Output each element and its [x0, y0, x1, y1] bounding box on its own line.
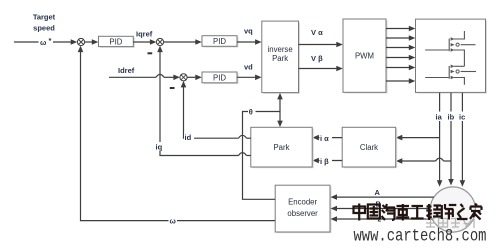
svg-text:*: * — [49, 36, 52, 45]
svg-text:Clark: Clark — [360, 143, 378, 152]
wire i-alpha (Clark to Park) — [318, 137, 342, 139]
watermark hanzi (red brand text) — [354, 204, 482, 221]
block U3 inverter bridge — [416, 19, 488, 94]
block PID3 (d-axis PID) — [202, 72, 239, 84]
block U2 PWM — [343, 19, 388, 94]
zhong — [354, 204, 366, 221]
svg-text:PWM: PWM — [355, 52, 374, 61]
svg-text:Park: Park — [273, 143, 289, 152]
wire encoder A line — [337, 196, 435, 198]
svg-text:id: id — [185, 133, 192, 142]
svg-text:PID: PID — [213, 37, 226, 46]
svg-text:Park: Park — [272, 54, 288, 63]
svg-text:i α: i α — [320, 134, 329, 143]
wire Iqref (PID1 to S2) — [133, 41, 150, 43]
svg-text:ω: ω — [40, 38, 47, 47]
svg-text:PID: PID — [213, 73, 226, 82]
wire id feedback (Park to S3) — [184, 87, 251, 139]
wire vq (PID2 to inverse Park) — [237, 41, 256, 43]
wire iq feedback (Park to S2) — [160, 51, 251, 155]
che — [396, 204, 409, 221]
transistor Q1 (top mosfet) — [425, 31, 475, 66]
wires PWM gate signals x6 — [386, 29, 410, 82]
block PID2 (q-axis PID) — [202, 36, 239, 48]
label omega-hat — [169, 216, 178, 226]
label i beta — [320, 157, 333, 166]
svg-text:Idref: Idref — [118, 66, 135, 75]
block PID1 (speed PID) — [99, 36, 135, 48]
label Target speed — [33, 13, 56, 33]
wire S3 to PID3 — [187, 76, 196, 78]
junction S1 (speed error) — [77, 38, 84, 45]
svg-text:Target: Target — [33, 13, 56, 22]
label minus S2 — [148, 52, 153, 54]
arrowhead into junction S1 — [71, 39, 78, 45]
label omega-star — [40, 36, 52, 47]
svg-text:inverse: inverse — [268, 45, 293, 54]
label minus S3 — [170, 87, 175, 89]
wire vd (PID3 to inverse Park) — [237, 76, 256, 78]
wire ia phase line — [439, 93, 441, 181]
wire encoder Z line — [337, 218, 433, 220]
svg-text:V β: V β — [311, 54, 323, 63]
wire ic phase line — [461, 93, 463, 181]
wire S1 to PID1 — [85, 41, 93, 43]
wire i-beta (Clark to Park) — [318, 160, 342, 162]
svg-text:θ: θ — [249, 108, 253, 117]
guo — [368, 205, 380, 219]
svg-text:vd: vd — [244, 63, 253, 72]
wire Idref (to S3) — [109, 74, 174, 77]
block U4 Clark — [342, 127, 397, 168]
svg-text:speed: speed — [33, 24, 55, 33]
svg-text:vq: vq — [244, 27, 253, 36]
svg-text:Encoder: Encoder — [288, 198, 317, 207]
wire encoder B line — [337, 208, 431, 210]
wire ib tap to Clark (hop over ia) — [402, 158, 452, 161]
svg-text:www.cartech8.com: www.cartech8.com — [354, 226, 487, 246]
svg-text:observer: observer — [287, 209, 318, 218]
block U1 inverse Park — [262, 21, 300, 94]
wire ib phase line — [450, 93, 452, 180]
wire ia tap to Clark — [402, 137, 440, 139]
cheng — [426, 204, 441, 220]
junction S2 (q current error) — [156, 38, 163, 45]
label i alpha — [320, 134, 333, 143]
svg-text:V α: V α — [311, 28, 323, 37]
wire V-alpha (inverse Park to PWM) — [299, 44, 338, 46]
label id — [184, 133, 194, 143]
watermark ghost hanzi — [426, 219, 474, 229]
motor M (PMSM circle) — [430, 187, 475, 232]
svg-text:A: A — [375, 188, 381, 197]
block U6 Encoder observer — [275, 185, 331, 233]
label theta — [248, 106, 256, 117]
wire theta net (encoder to inverse Park and Park) — [243, 99, 281, 200]
svg-text:ia: ia — [436, 113, 443, 122]
gong — [411, 206, 424, 219]
svg-text:ib: ib — [448, 113, 455, 122]
svg-text:ω: ω — [170, 217, 177, 226]
zhi — [457, 204, 468, 219]
block U5 Park — [251, 127, 314, 168]
junction S3 (d current error) — [180, 74, 187, 81]
svg-text:PID: PID — [109, 37, 122, 46]
svg-text:iq: iq — [156, 143, 163, 152]
svg-text:i β: i β — [320, 157, 329, 166]
wire S2 to PID2 — [164, 41, 196, 43]
wire omega feedback (encoder to S1) — [81, 51, 276, 220]
svg-text:Iqref: Iqref — [136, 30, 153, 39]
label iq — [155, 142, 165, 152]
transistor Q2 (bottom mosfet) — [425, 66, 476, 85]
jia — [470, 204, 482, 220]
svg-text:ic: ic — [459, 113, 465, 122]
wire V-beta (inverse Park to PWM) — [299, 68, 338, 70]
wire omega-star input — [14, 41, 72, 43]
shi — [442, 204, 457, 220]
qi — [382, 204, 396, 220]
labels ia ib ic — [435, 112, 472, 122]
